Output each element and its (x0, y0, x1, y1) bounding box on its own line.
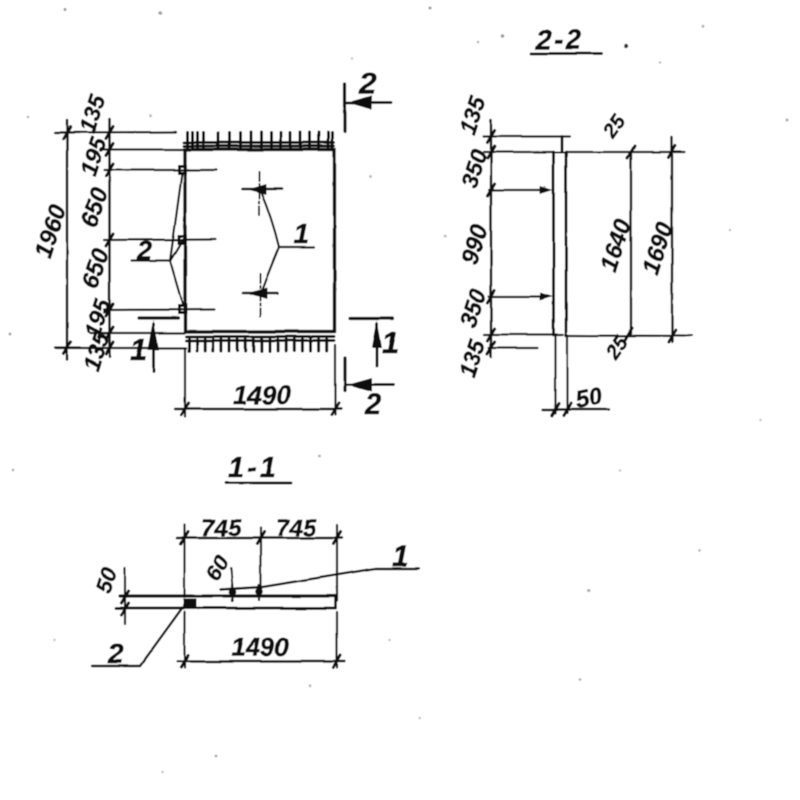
extension lines 2-2 (483, 137, 570, 349)
top comb teeth (188, 133, 333, 148)
svg-text:1-1: 1-1 (228, 452, 279, 484)
section mark 2 bottom (345, 358, 393, 392)
svg-text:745: 745 (276, 515, 317, 542)
svg-text:1: 1 (293, 218, 309, 249)
overall dim line 1960 (66, 120, 69, 360)
slab section 1-1 (120, 594, 336, 597)
lug item2 #1 on plan left edge (178, 165, 188, 175)
top dim 745+745 (185, 525, 338, 601)
svg-text:1: 1 (130, 332, 147, 367)
section mark 1 right (350, 319, 393, 367)
weld arrows (540, 186, 553, 194)
svg-text:2: 2 (364, 389, 381, 421)
svg-text:1490: 1490 (231, 632, 289, 662)
dim 50 (1-1 left) (124, 568, 126, 624)
chain ticks (106, 127, 113, 355)
leader to item 1 (1-1) (221, 569, 419, 590)
leader to item 2 (plan) (131, 173, 183, 306)
label 60 with leader (232, 568, 234, 588)
svg-text:1490: 1490 (233, 380, 291, 410)
svg-text:1: 1 (382, 325, 399, 360)
anchor cross item1 top (242, 172, 282, 215)
top reinforcement comb band (184, 141, 334, 144)
extension lines plan left (56, 132, 217, 348)
svg-text:2: 2 (107, 638, 124, 669)
top stub (561, 137, 564, 153)
right dim lines 1640 1690 (566, 151, 685, 153)
chain dim line (plan left) (108, 119, 111, 357)
bottom comb teeth (189, 339, 327, 351)
thickness ext + dim 50 (2-2) (554, 335, 556, 413)
leader to item 1 (plan) (261, 192, 314, 290)
lug item2 #2 on plan left edge (178, 235, 188, 245)
section mark 2 top (345, 84, 392, 131)
anchor cross item1 bottom (243, 274, 277, 316)
dim 1490 plan (184, 349, 186, 417)
lug item2 #3 on plan left edge (178, 305, 188, 315)
section mark 1 left (139, 318, 178, 372)
svg-text:1: 1 (392, 540, 409, 573)
anchor loops item1 (section) (231, 585, 233, 601)
chain ticks 2-2 (487, 131, 494, 355)
plate outline plan view (185, 150, 335, 332)
bottom dim 1490 (1-1) (185, 612, 338, 668)
bottom reinforcement comb band (186, 335, 334, 338)
svg-text:2: 2 (358, 66, 376, 101)
leader to item 2 (1-1) (92, 608, 183, 667)
lug item2 (section) (183, 599, 197, 608)
chain dim line (2-2 left) (490, 120, 493, 357)
svg-text:745: 745 (201, 515, 242, 542)
plate edge view (section 2-2) (552, 152, 555, 335)
svg-text:2-2: 2-2 (535, 24, 584, 55)
